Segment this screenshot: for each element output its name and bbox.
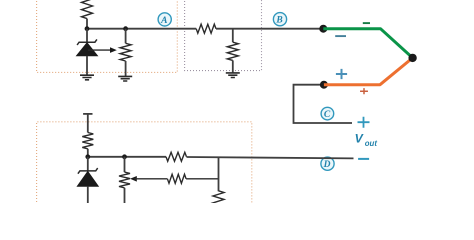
resistor R9 (cut off at bottom edge) [213,191,224,212]
potentiometer R6 [124,157,126,172]
svg-text:V: V [355,132,364,146]
zener diode D1 [77,39,97,45]
output plus sign [358,117,370,128]
wire: from C run up to orange terminal dot [294,85,353,123]
resistor R5 (bottom supply dropper) [82,133,93,149]
node B [273,13,286,26]
polarity label: orange plus below orange wire [360,88,368,94]
svg-text:D: D [323,160,331,170]
wiper arrow from D1 to potentiometer R2 [88,49,113,51]
zener diode D2 [78,168,98,174]
output minus sign [358,158,369,160]
resistor R8 [167,174,186,183]
terminal dot at end of B rail [319,25,327,33]
terminal dot at start of orange wire [320,81,328,89]
resistor R1 (top supply dropper, cut off at top edge) [82,0,93,19]
svg-text:B: B [275,16,282,26]
wire: D1 anode to ground [86,56,88,75]
wire: vertical branch at right of bottom stage [218,157,220,192]
wiper arrow of R6 with feedback resistor R8 [130,176,137,182]
green probe wire [323,29,412,58]
wire: R3 to terminal dot at B rail [216,28,323,30]
ground below R2 [118,76,132,81]
svg-text:C: C [324,110,331,120]
wire: D2 anode lead (cut off at bottom) [87,186,89,203]
wire: zener D1 cathode lead [86,29,88,43]
node Y2 junction dot [122,154,127,159]
dashed box: top RC filter stage [185,0,262,71]
node A [158,13,171,26]
polarity label: cyan plus above orange wire [336,69,347,79]
junction dot where green and orange probes meet [408,54,416,62]
wire: bottom main rail to resistor R7 [88,156,166,158]
svg-text:out: out [365,139,378,148]
capacitor-leg resistor R4 to ground [232,29,234,43]
wire: top main rail from node X to resistor R3 [87,28,196,30]
polarity label: green minus above green wire [363,22,370,24]
orange probe wire [324,58,413,85]
ground below D1 [80,75,94,80]
node X junction dot [85,26,90,31]
dashed box: bottom regulator stage [37,122,252,205]
node D [321,157,334,170]
wire: bottom rail from R7 to node D end [187,157,354,158]
input terminal T-bar of bottom stage [83,113,92,115]
resistor R3 (series filter resistor) [196,24,216,33]
potentiometer R2 [125,29,127,44]
node X2 junction dot [85,154,90,159]
ground below R4 [226,73,240,78]
svg-text:A: A [160,16,167,26]
node C [321,107,334,120]
polarity label: cyan minus below B rail [335,35,346,37]
dashed box: top-left regulator stage [37,0,178,72]
wire: zener D2 cathode lead [87,157,89,171]
node Y junction dot [123,26,128,31]
resistor R7 (series, on bottom rail) [166,152,187,161]
